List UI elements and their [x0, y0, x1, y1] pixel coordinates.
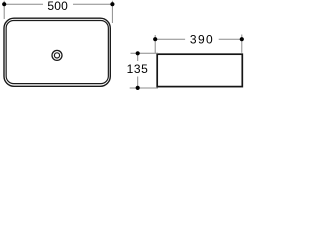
- dimension line 135 top segment: [137, 53, 139, 61]
- drain outer circle: [52, 50, 62, 60]
- extension line left of 390 dimension: [154, 35, 156, 53]
- dimension end dot 135 top: [136, 51, 140, 55]
- dimension end dot 390 right: [240, 37, 244, 41]
- dimension line 135 bottom segment: [137, 77, 139, 88]
- dimension end dot 500 left: [2, 2, 6, 6]
- dimension line 500 left segment: [4, 3, 43, 5]
- extension line bottom of 135 dimension: [130, 87, 158, 89]
- extension line right of 390 dimension: [241, 35, 243, 53]
- extension line right of 500 dimension: [111, 1, 113, 23]
- svg-text:135: 135: [127, 62, 149, 76]
- extension line top of 135 dimension: [131, 52, 159, 54]
- drain inner circle: [54, 53, 59, 58]
- svg-text:390: 390: [190, 32, 214, 46]
- dimension end dot 390 left: [153, 37, 157, 41]
- extension line left of 500 dimension: [3, 1, 5, 19]
- svg-text:500: 500: [47, 0, 68, 13]
- dimension line 390 right segment: [219, 38, 242, 40]
- basin inner bowl edge: [6, 21, 108, 84]
- dimension end dot 135 bottom: [136, 86, 140, 90]
- dimension line 500 right segment: [73, 3, 112, 5]
- dimension line 390 left segment: [155, 38, 185, 40]
- basin body rectangle (side view): [157, 54, 242, 86]
- basin outer rim (top view): [4, 18, 110, 86]
- dimension end dot 500 right: [110, 2, 114, 6]
